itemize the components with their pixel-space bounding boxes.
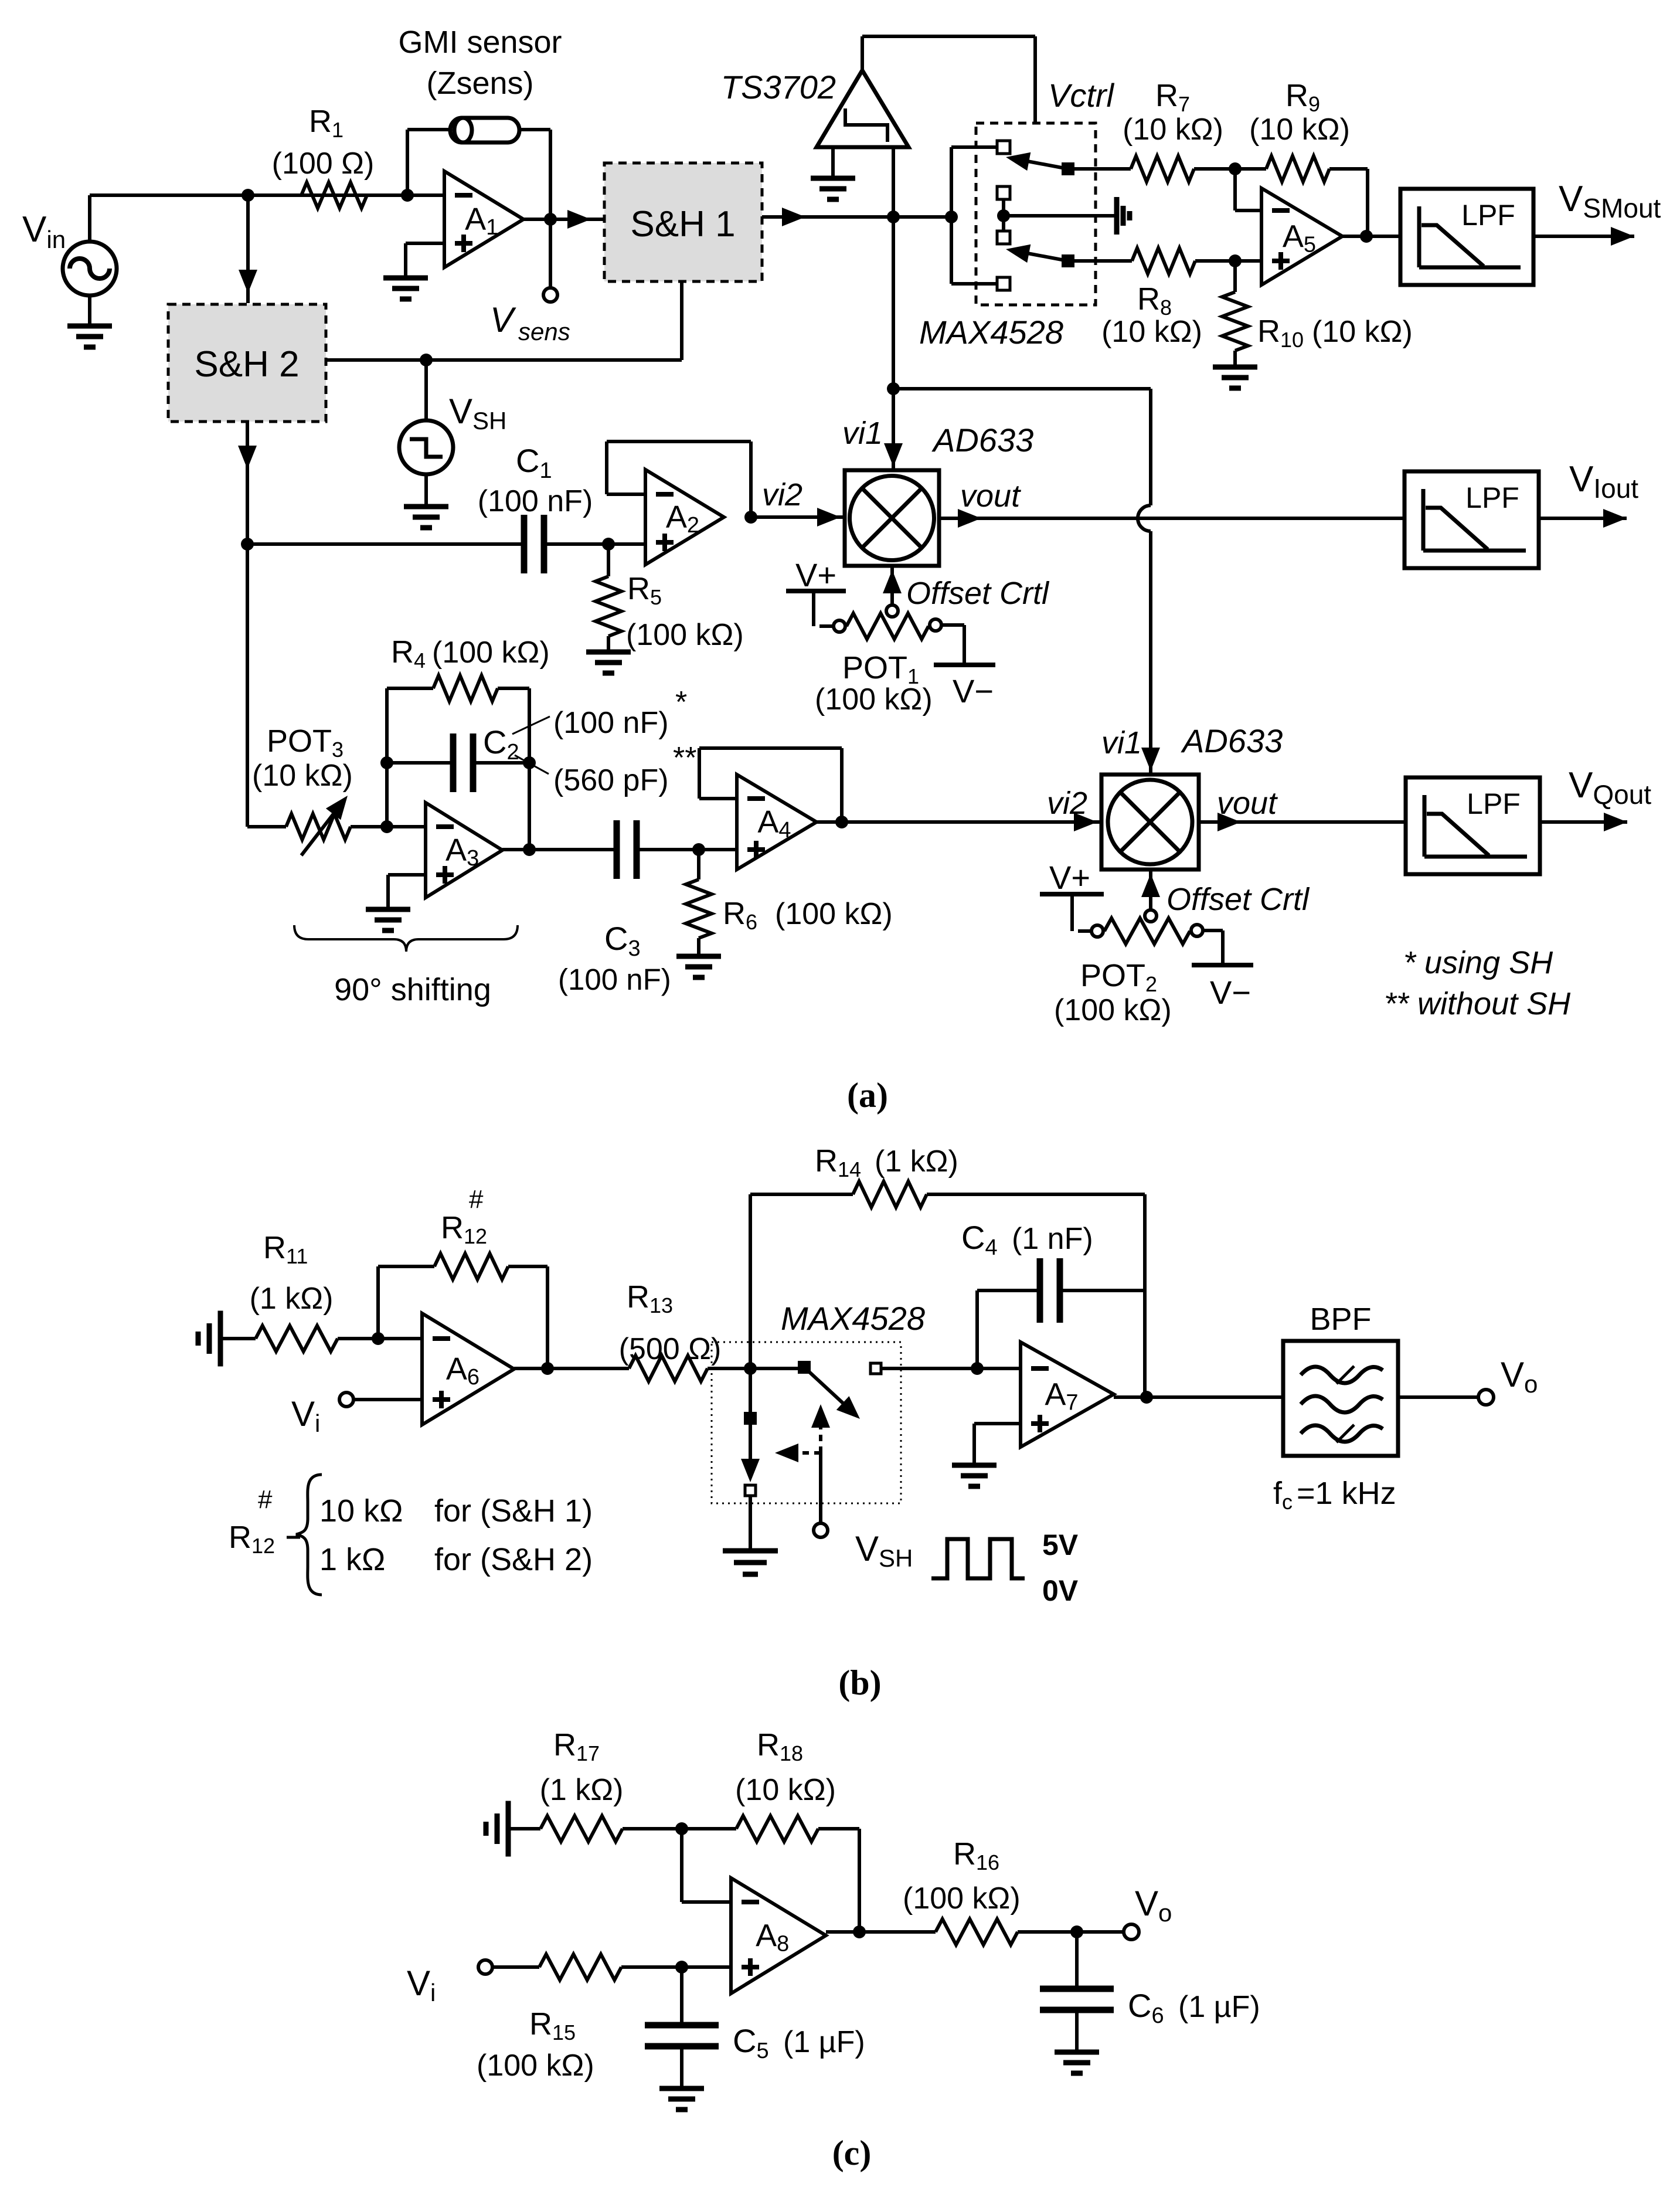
wire offset arrow no2 (1141, 870, 1160, 910)
svg-text:(100 nF): (100 nF) (478, 484, 593, 518)
svg-text:(10 kΩ): (10 kΩ) (735, 1773, 836, 1807)
label VSH b (855, 1529, 913, 1572)
wire A2 feedback (607, 441, 751, 517)
resistor R15 (539, 1954, 621, 1980)
resistor R18 (736, 1816, 818, 1842)
label Vctrl (1048, 77, 1115, 114)
label AD633 no2 (1181, 722, 1283, 759)
wire C4 right (1060, 1289, 1145, 1292)
block S&H 2 (168, 304, 326, 422)
label R8 (1137, 281, 1172, 320)
wire R5 top (607, 544, 610, 576)
wire C2 right (473, 761, 529, 765)
ground at A3 plus (366, 875, 426, 930)
ground under Vin (67, 296, 112, 347)
svg-text:(100 kΩ): (100 kΩ) (432, 636, 550, 670)
filter LPF SMout (1400, 189, 1533, 285)
svg-text:(1 kΩ): (1 kΩ) (250, 1282, 334, 1316)
filter BPF (1283, 1341, 1398, 1456)
label R9 (1285, 78, 1320, 116)
wire R6 bottom (697, 938, 700, 956)
op-amp A3 (426, 803, 502, 898)
svg-text:Offset Crtl: Offset Crtl (906, 576, 1050, 611)
note using SH (1403, 945, 1553, 980)
label C1 value (478, 484, 593, 518)
label Vsens (490, 300, 570, 345)
wire R17 to node (623, 1827, 736, 1830)
wire R9 right (1329, 169, 1368, 236)
resistor R8 (1132, 248, 1195, 274)
wire R6 top stub (697, 850, 700, 879)
label vi1 no2 (1101, 725, 1142, 760)
label fc (1273, 1476, 1396, 1514)
label R11 value (250, 1282, 334, 1316)
label Offset Crtl no1 (906, 576, 1050, 611)
wire A6 out to R13 (514, 1367, 629, 1370)
wire comparator output to Vctrl (862, 36, 1035, 123)
caption c (832, 2134, 872, 2172)
svg-text:S&H 1: S&H 1 (630, 204, 735, 244)
pointer line C2 to 560pF (515, 755, 549, 774)
wire R11 to A6 (338, 1337, 422, 1340)
wire R18 right (818, 1829, 859, 1932)
resistor R5 (596, 576, 621, 636)
node A5 output (1360, 230, 1373, 243)
wire C5 stem (680, 1967, 683, 2026)
wire C4 left (977, 1290, 1040, 1368)
svg-text:MAX4528: MAX4528 (919, 314, 1063, 351)
terminal Vi b (339, 1393, 353, 1407)
resistor R11 (256, 1326, 338, 1351)
svg-text:AD633: AD633 (931, 422, 1033, 459)
node R7 R9 (1229, 162, 1242, 175)
svg-text:90° shifting: 90° shifting (334, 972, 491, 1007)
capacitor C4 (1040, 1258, 1060, 1323)
ground comparator (811, 147, 855, 199)
wire R12 right (508, 1266, 547, 1368)
wire LPF to VQout (1540, 813, 1627, 831)
svg-text:(500 Ω): (500 Ω) (619, 1332, 722, 1366)
svg-text:vi1: vi1 (1101, 725, 1142, 760)
ground at A1 + input (383, 243, 444, 299)
label GMI sensor (398, 25, 562, 60)
label C3 (604, 920, 641, 961)
comparator TS3702 (817, 70, 909, 147)
filter LPF Iout (1404, 471, 1539, 568)
wire switch shunt down (741, 1368, 760, 1482)
label R17 (553, 1727, 600, 1765)
label R16 (953, 1836, 999, 1874)
op-amp A2 (645, 470, 724, 565)
ground under R5 (586, 652, 631, 673)
label AD633 no1 (931, 422, 1033, 459)
label C2 value2 (553, 741, 696, 797)
wire vout no2 (1199, 813, 1406, 831)
svg-text:(100 kΩ): (100 kΩ) (477, 2049, 594, 2083)
wire C6 stem (1075, 1932, 1079, 1989)
node comparator input (887, 210, 900, 223)
filter LPF Qout (1406, 777, 1540, 874)
wire comparator node down (892, 217, 895, 389)
wire Vsens stub (549, 219, 552, 288)
ground at A7 plus (952, 1424, 1021, 1486)
wire R16 to Vo (1018, 1930, 1124, 1934)
wire mid to ground (1004, 214, 1117, 218)
svg-text:TS3702: TS3702 (721, 69, 836, 106)
wire VSH control (819, 1453, 822, 1523)
wire C1 to A2 (544, 542, 645, 546)
label R6 (723, 896, 893, 934)
label Vi b (291, 1394, 320, 1437)
wire R8 right (1195, 259, 1261, 263)
svg-text:MAX4528: MAX4528 (781, 1300, 925, 1337)
wire GMI to A1 output (519, 130, 550, 219)
svg-text:vi2: vi2 (1047, 786, 1087, 821)
svg-text:LPF: LPF (1467, 787, 1521, 820)
op-amp A4 (737, 775, 817, 870)
node A1 inverting input (401, 189, 414, 202)
multiplier AD633 no2 (1101, 775, 1199, 870)
ground switch b (723, 1551, 778, 1574)
label VSH (449, 392, 506, 434)
label 5V (1042, 1529, 1079, 1561)
label 0V (1042, 1574, 1079, 1607)
wire node B to C1 (247, 542, 524, 546)
terminal POT2 wiper (1145, 910, 1157, 922)
wire A4 to vi2 no2 (817, 813, 1101, 831)
svg-text:(10 kΩ): (10 kΩ) (1123, 113, 1223, 147)
label R7 (1155, 78, 1190, 116)
resistor R13 (629, 1356, 708, 1381)
wire comparator input (892, 147, 895, 217)
label R12 spec (229, 1475, 593, 1595)
wire R4 left (387, 687, 433, 690)
op-amp A1 (444, 171, 523, 267)
node C5 branch (675, 1961, 688, 1974)
GMI sensor Zsens cylinder (450, 118, 519, 142)
resistor R16 (936, 1919, 1018, 1945)
node R6 top (692, 843, 705, 856)
terminal Vi c (478, 1960, 492, 1974)
wire R14 right (927, 1194, 1145, 1397)
svg-text:5V: 5V (1042, 1529, 1079, 1561)
block S&H 1 (604, 163, 762, 281)
svg-text:* using SH: * using SH (1403, 945, 1553, 980)
label R13 value (619, 1332, 722, 1366)
wire LPF to VSMout (1533, 227, 1634, 246)
wire A3 out to C3 (502, 848, 617, 851)
label vi2 no2 (1047, 786, 1087, 821)
wire offset arrow no1 (883, 566, 902, 604)
pulse source VSH (399, 360, 453, 474)
svg-text:(100 kΩ): (100 kΩ) (775, 897, 893, 931)
resistor R1 (301, 182, 367, 208)
label R1 value (272, 147, 375, 181)
svg-text:#: # (258, 1485, 273, 1514)
svg-text:vi2: vi2 (762, 477, 802, 512)
svg-text:1 kΩ: 1 kΩ (319, 1542, 385, 1577)
svg-text:sens: sens (518, 318, 570, 345)
label Vin (22, 209, 66, 253)
label BPF (1310, 1302, 1371, 1337)
wire C5 bottom (680, 2046, 683, 2088)
label POT2 (1080, 958, 1157, 996)
ground under R10 (1213, 367, 1257, 388)
label R11 (263, 1230, 308, 1268)
svg-text:AD633: AD633 (1181, 722, 1283, 759)
ground input c (486, 1801, 508, 1857)
svg-text:*: * (675, 685, 687, 719)
wire S&H2 output down (238, 422, 257, 827)
label 90 shifting (334, 972, 491, 1007)
wire R15 to A8 (621, 1965, 731, 1969)
label Vo b (1501, 1355, 1538, 1398)
node switch common (945, 210, 958, 223)
label R14 (815, 1143, 958, 1181)
label C2 (483, 724, 519, 765)
pot POT2 (1091, 918, 1203, 944)
terminal Vo c (1124, 1924, 1139, 1940)
svg-text:LPF: LPF (1465, 481, 1519, 514)
label R10 (1257, 314, 1413, 352)
label C2 value1 (553, 685, 687, 740)
capacitor C2 (453, 733, 473, 792)
wire switch common branches (951, 147, 997, 284)
node R8 R10 (1229, 254, 1242, 267)
multiplier AD633 no1 (845, 470, 939, 566)
wire shunt to ground (749, 1496, 752, 1551)
svg-text:#: # (469, 1185, 484, 1214)
brace 90 deg shifting (294, 925, 518, 952)
label Vplus no2 (1049, 859, 1090, 896)
label R18 value (735, 1773, 836, 1807)
resistor R14 (853, 1181, 927, 1207)
label POT1 value (815, 682, 933, 716)
label R17 value (540, 1773, 624, 1807)
wire A1 output to S&H1 (523, 210, 604, 229)
supply Vminus no2 (1192, 930, 1253, 965)
op-amp A7 (1021, 1342, 1114, 1447)
resistor R6 (686, 879, 712, 938)
label POT3 (267, 724, 344, 762)
label Vminus no1 (953, 673, 994, 709)
svg-text:for (S&H 2): for (S&H 2) (434, 1542, 593, 1577)
ground input b (198, 1311, 220, 1367)
node A1 output (544, 213, 557, 226)
wire A2 out to vi2 (751, 508, 845, 527)
svg-text:(a): (a) (847, 1076, 888, 1115)
supply Vplus no1 (786, 591, 846, 626)
supply Vminus no1 (934, 625, 995, 665)
glyph square wave (931, 1539, 1025, 1578)
node A junction (242, 189, 254, 202)
label R1 (309, 104, 344, 142)
wire A8 out to R16 (826, 1930, 936, 1934)
caption a (847, 1076, 888, 1115)
label R5 value (626, 618, 744, 652)
svg-text:(100 kΩ): (100 kΩ) (1054, 993, 1172, 1027)
resistor R10 (1222, 292, 1248, 351)
svg-text:(1 kΩ): (1 kΩ) (540, 1773, 624, 1807)
svg-text:V+: V+ (795, 556, 836, 593)
svg-text:(100 kΩ): (100 kΩ) (903, 1881, 1021, 1915)
svg-text:(100 Ω): (100 Ω) (272, 147, 375, 181)
resistor R4 (433, 675, 498, 701)
node switch b (744, 1362, 757, 1375)
wire switch out to A7 (881, 1367, 1021, 1370)
label R8 value (1101, 315, 1202, 349)
svg-text:for (S&H 1): for (S&H 1) (434, 1493, 593, 1529)
svg-text:(10 kΩ): (10 kΩ) (252, 759, 353, 793)
wire R7 right (1194, 167, 1235, 171)
label Offset Crtl no2 (1167, 882, 1310, 917)
label vout no1 (960, 478, 1021, 514)
label Vi c (407, 1964, 436, 2006)
label R16 value (903, 1881, 1021, 1915)
label R12 (441, 1185, 487, 1248)
svg-text:(10 kΩ): (10 kΩ) (1101, 315, 1202, 349)
label C5 (733, 2022, 865, 2063)
wire R10 top (1233, 261, 1237, 292)
label R15 value (477, 2049, 594, 2083)
wire LPF to VIout (1539, 509, 1627, 528)
svg-text:vi1: vi1 (842, 416, 883, 451)
node A7 output (1140, 1391, 1153, 1404)
svg-text:(560 pF): (560 pF) (553, 763, 669, 797)
switch wiper top (1006, 152, 1074, 175)
ground under VSH (404, 474, 448, 528)
wire gnd to R11 (220, 1337, 256, 1340)
terminal Vo b (1478, 1390, 1494, 1405)
switch box MAX4528 b (712, 1342, 901, 1503)
wire S&H1 output (762, 208, 951, 226)
node A6 inverting (372, 1332, 385, 1345)
svg-text:(Zsens): (Zsens) (426, 66, 533, 101)
wire hop vertical to vi1 no2 (1138, 389, 1160, 773)
label C6 (1128, 1987, 1260, 2028)
wire mid pins (997, 199, 1010, 231)
wire R7 node to A5 minus (1235, 169, 1261, 210)
pointer line C2 to 100nF (512, 716, 550, 734)
node C2 left (380, 756, 393, 769)
svg-text:S&H 2: S&H 2 (194, 344, 299, 385)
capacitor C6 (1040, 1989, 1114, 2010)
wire R8 left (1074, 259, 1132, 263)
resistor R12 (434, 1254, 508, 1279)
capacitor C5 (645, 2025, 719, 2046)
svg-text:V−: V− (1210, 974, 1251, 1011)
label C4 (961, 1219, 1093, 1260)
node A8 output (853, 1925, 866, 1938)
label C1 (516, 442, 552, 483)
note without SH (1384, 986, 1571, 1021)
ground under C6 (1055, 2052, 1099, 2073)
terminal POT1 wiper (886, 605, 898, 617)
resistor R17 (540, 1816, 623, 1842)
ground sideways mid (1117, 197, 1130, 235)
node comparator to vi1 (887, 382, 900, 395)
dashed control arrows (775, 1404, 830, 1462)
label Vo c (1135, 1884, 1172, 1927)
svg-text:Vctrl: Vctrl (1048, 77, 1115, 114)
label R15 (529, 2006, 576, 2044)
wire R5 bottom (607, 636, 610, 652)
node C4 branch (971, 1362, 984, 1375)
label POT1 (842, 650, 919, 688)
node A2 output (744, 511, 757, 524)
node A4 output (835, 816, 848, 828)
pin square top (997, 141, 1010, 154)
terminal VSH control (814, 1523, 828, 1537)
wire Vi to A6 (353, 1398, 422, 1401)
node A3 output (523, 843, 536, 856)
svg-text:(b): (b) (838, 1663, 881, 1702)
wire A5 output (1342, 235, 1400, 238)
wire R7 left (1074, 167, 1131, 171)
label R7 value (1123, 113, 1223, 147)
label Vminus no2 (1210, 974, 1251, 1011)
label R13 (627, 1279, 673, 1317)
label R9 value (1249, 113, 1350, 147)
capacitor C3 (617, 820, 637, 879)
node C2 right (523, 756, 536, 769)
node VSH junction (420, 354, 433, 366)
label vout no2 (1217, 786, 1278, 821)
label MAX4528 part a (919, 314, 1063, 351)
wire R9 left (1235, 167, 1266, 171)
wire Vin to node A (90, 195, 407, 242)
label VQout (1569, 765, 1651, 810)
wire node A down to S&H2 (239, 195, 257, 303)
wire A4 feedback (699, 748, 842, 822)
label C3 value (558, 963, 671, 996)
wire S&H1 bottom to VSH row (326, 281, 682, 360)
svg-text:vout: vout (1217, 786, 1278, 821)
label VIout (1569, 459, 1638, 504)
svg-text:(c): (c) (832, 2134, 872, 2172)
label R18 (757, 1727, 803, 1765)
node A2 plus input (602, 538, 615, 551)
svg-text:(1 kΩ): (1 kΩ) (875, 1144, 958, 1178)
wire vout no1 (939, 509, 1404, 528)
wire Vi to R15 (492, 1965, 539, 1969)
pin square mid upper (997, 186, 1010, 199)
pin square bottom (997, 277, 1010, 290)
wire vi1 branch right (893, 387, 1151, 390)
svg-text:(10 kΩ): (10 kΩ) (1312, 315, 1413, 349)
wire S&H2 to POT3 (247, 544, 286, 827)
node A6 output (541, 1362, 554, 1375)
label vi1 no1 (842, 416, 883, 451)
svg-text:=1 kHz: =1 kHz (1297, 1476, 1396, 1511)
ground under R6 (676, 956, 721, 977)
label R4 (391, 634, 550, 673)
svg-text:(100 kΩ): (100 kΩ) (626, 618, 744, 652)
svg-text:V+: V+ (1049, 859, 1090, 896)
wire C2 left (387, 761, 453, 765)
wire A1 feedback up (407, 130, 450, 195)
svg-text:V−: V− (953, 673, 994, 709)
wire R4 right (498, 688, 529, 850)
node B junction (241, 538, 254, 551)
wire gnd to R17 (508, 1827, 540, 1830)
svg-text:(1 µF): (1 µF) (783, 2025, 865, 2059)
node C6 branch (1070, 1925, 1083, 1938)
op-amp A6 (422, 1313, 514, 1425)
wire POT3 to A3 (351, 825, 426, 828)
svg-text:(100 kΩ): (100 kΩ) (815, 682, 933, 716)
resistor R7 (1131, 156, 1194, 182)
